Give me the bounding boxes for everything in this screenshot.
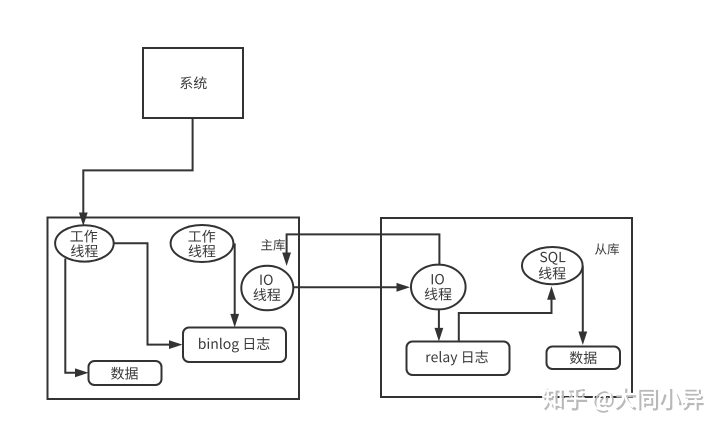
wire: relay log up-right to SQL thread bbox=[459, 298, 552, 342]
label: slave IO line2 线程 bbox=[425, 288, 452, 301]
arrowhead: into binlog top bbox=[230, 314, 239, 328]
arrowhead: into slave data top bbox=[578, 332, 587, 346]
label: worker thread 2 line1 工作 bbox=[188, 230, 215, 243]
label: worker thread 1 line1 工作 bbox=[70, 230, 97, 243]
ellipse: slave IO thread IO线程 bbox=[411, 265, 466, 310]
ellipse: worker thread 2 工作线程 bbox=[171, 225, 234, 262]
label: master IO line2 线程 bbox=[253, 288, 280, 301]
watermark shadow: 知乎 @大同小异 bbox=[544, 389, 704, 413]
label: slave IO line1 bbox=[432, 274, 444, 285]
rounded box: slave data 数据 bbox=[547, 347, 621, 370]
box: system 系统 container bbox=[143, 48, 243, 118]
label: SQL thread line1 bbox=[540, 252, 565, 265]
arrowhead: into binlog left bbox=[169, 340, 183, 349]
label: worker thread 1 line2 线程 bbox=[71, 244, 98, 257]
arrowhead: into SQL thread bottom bbox=[547, 286, 556, 300]
label: binlog 日志 bbox=[199, 337, 270, 352]
wire: worker-thread-1 bottom to data box (master) bbox=[65, 259, 77, 373]
arrowhead: into relay log top bbox=[435, 328, 444, 342]
label: worker thread 2 line2 线程 bbox=[189, 244, 216, 257]
label: 从库 (slave) bbox=[595, 243, 619, 255]
box: slave 从库 container bbox=[381, 218, 632, 397]
label: master IO line1 bbox=[260, 274, 272, 285]
rounded box: relay 日志 bbox=[407, 342, 510, 376]
label: 系统 (system) bbox=[180, 76, 206, 89]
ellipse: SQL thread SQL线程 bbox=[522, 247, 583, 284]
label: SQL thread line2 线程 bbox=[539, 267, 566, 280]
label: 数据 (slave data) bbox=[570, 351, 597, 364]
arrowhead: into master IO thread top bbox=[282, 253, 291, 267]
arrowhead: into worker-thread-1 top bbox=[79, 213, 88, 227]
wire: slave IO thread down to relay log bbox=[438, 309, 440, 331]
wire: worker-thread-2 down to binlog top bbox=[234, 243, 236, 316]
ellipse: master IO thread IO线程 bbox=[241, 266, 293, 311]
ellipse: worker thread 1 工作线程 bbox=[55, 225, 114, 261]
wire: slave IO thread up-left to master IO thread bbox=[287, 234, 440, 265]
arrowhead: into slave IO thread left bbox=[397, 283, 411, 292]
wire: system to worker-thread-1 (down, left, down) bbox=[83, 118, 192, 214]
wire: SQL thread down to data box (slave) bbox=[582, 266, 584, 334]
rounded box: master data 数据 bbox=[89, 361, 162, 385]
watermark text: 知乎 @大同小异 bbox=[542, 386, 702, 410]
label: 数据 (master data) bbox=[111, 367, 138, 380]
wire: master IO thread to slave IO thread bbox=[292, 286, 398, 288]
box: master 主库 container bbox=[48, 218, 300, 400]
arrowhead: into master data left bbox=[75, 368, 89, 377]
label: relay 日志 bbox=[426, 350, 487, 365]
wire: worker-thread-1 right to binlog box bbox=[114, 243, 172, 344]
label: 主库 (master) bbox=[261, 239, 285, 251]
rounded box: binlog 日志 bbox=[183, 328, 286, 363]
